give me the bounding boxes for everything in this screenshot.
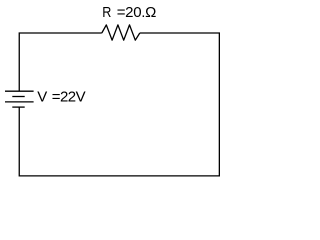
wire: top side right segment, right side, bottom side, left side lower (to battery negative plate) [19, 33, 219, 176]
battery V: plate 1 long (top, positive terminal) [5, 90, 34, 92]
battery V: plate 3 long (positive) [5, 101, 34, 103]
resistor R (zigzag body) [102, 25, 140, 40]
battery V: plate 2 short (negative) [12, 96, 24, 98]
resistor value label "R" [102, 3, 111, 20]
svg-text:=20.Ω: =20.Ω [117, 4, 156, 21]
battery V: plate 4 short (bottom, negative terminal) [12, 106, 24, 108]
svg-text:=22V: =22V [52, 88, 86, 105]
svg-text:R: R [102, 3, 111, 20]
wire: left side upper from battery positive plate up to top-left corner and top side left segment to resistor lead [19, 33, 102, 91]
svg-text:V: V [37, 88, 47, 105]
